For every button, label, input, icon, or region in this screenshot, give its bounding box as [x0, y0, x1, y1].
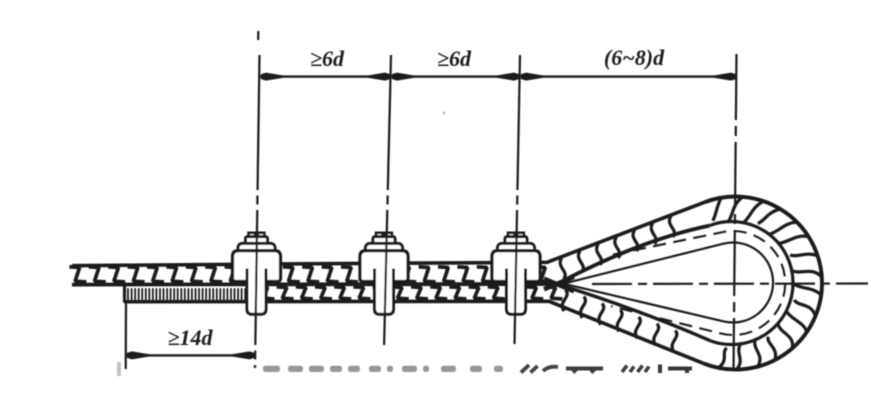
loop ring strand hatching — [713, 197, 822, 369]
seizing wrap hatching — [128, 288, 249, 300]
loop lower straight hatching — [562, 290, 677, 352]
thimble outer edge arc (rope inner edge) — [710, 222, 794, 345]
wire rope: upper edge (standing part) — [72, 202, 705, 266]
scan speck — [442, 111, 445, 114]
extension line for ≥14d — [125, 303, 128, 369]
vertical centerline of thimble eye — [734, 54, 737, 370]
wire rope: lower edge (dead end) — [124, 301, 703, 363]
arrowheads of ≥14d dimension — [127, 351, 255, 359]
thimble inner edge (eye opening) — [563, 242, 773, 322]
cropped text row: light character tops — [263, 366, 503, 372]
thimble groove hidden line (dashed) — [611, 231, 785, 335]
horizontal centerline of thimble eye — [592, 282, 868, 285]
centerline of clip 3 — [515, 55, 521, 344]
cropped text row: darker character tops — [521, 365, 692, 374]
centerline of clip 1 — [255, 55, 260, 368]
wire-rope clip 3 (saddle, nuts and U-bolt) — [492, 233, 540, 314]
top dimension line — [260, 75, 737, 77]
wire-rope clip 2 (saddle, nuts and U-bolt) — [360, 233, 408, 314]
thimble loop outer rope edge arc — [703, 197, 822, 370]
centerline tick above clip 1 — [257, 31, 259, 40]
svg-text:≥6d: ≥6d — [437, 46, 472, 71]
svg-text:(6~8)d: (6~8)d — [604, 45, 665, 70]
svg-text:≥14d: ≥14d — [167, 325, 213, 350]
seizing band left cap — [123, 285, 126, 302]
arrowheads of top dimension spans — [261, 73, 736, 81]
apex crossing of rope edges (thick) — [544, 277, 574, 291]
scan smudge under left extension line — [117, 362, 121, 376]
wire rope: middle edge — [72, 226, 710, 285]
loop upper straight hatching — [560, 216, 674, 279]
wire rope: dead-end top edge into loop — [557, 284, 710, 341]
bottom dimension line — [126, 354, 256, 356]
centerline of clip 2 — [384, 55, 391, 349]
dead-end rope strand hatching — [257, 287, 562, 299]
svg-text:≥6d: ≥6d — [310, 46, 345, 71]
upper rope strand hatching — [69, 267, 552, 282]
wire-rope clip 1 (saddle, nuts and U-bolt) — [233, 233, 281, 314]
